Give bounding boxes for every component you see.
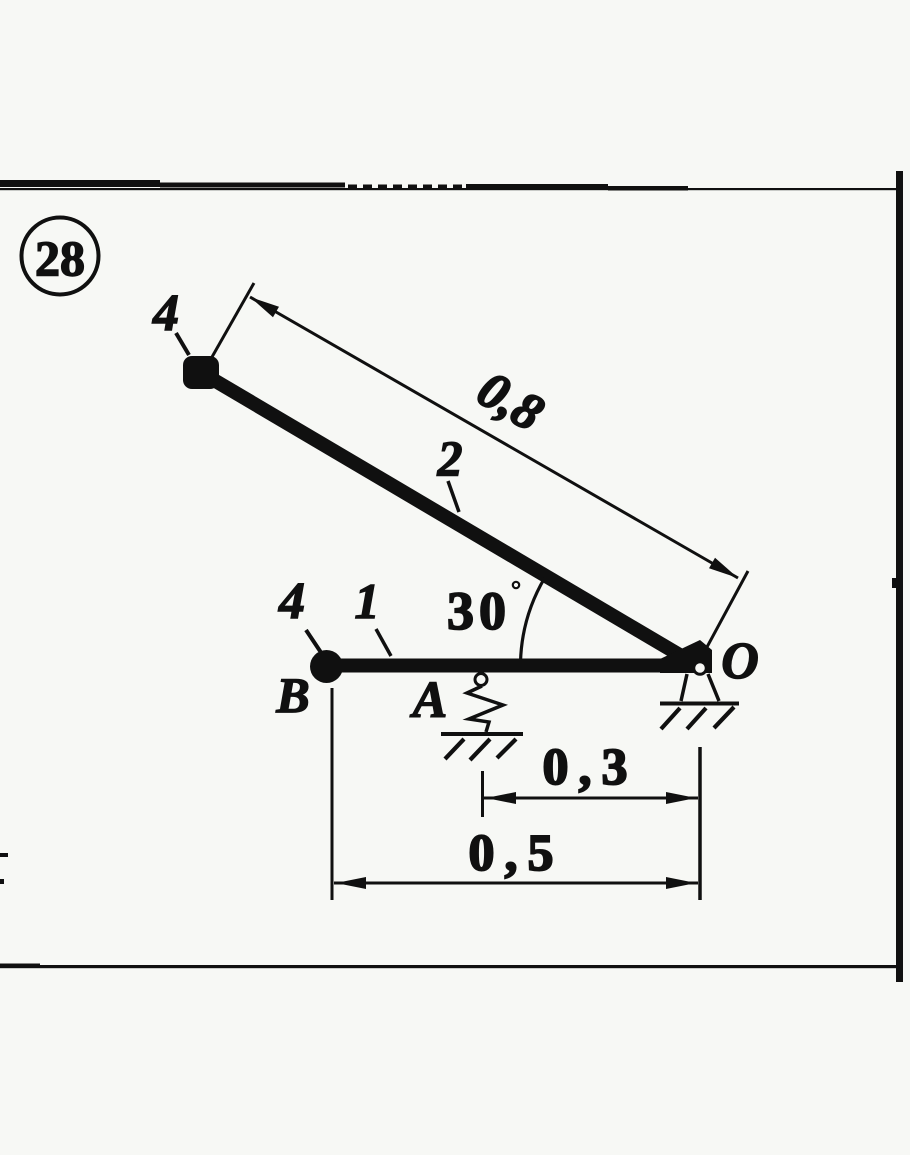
dimension 0,3 / 0,5 shared right tick [698,747,702,900]
top border line [0,180,899,191]
svg-text:A: A [410,672,448,729]
arrowhead left (0,3) [486,792,516,804]
dimension line 0,5 [334,882,698,885]
right border line [896,171,903,982]
hatching at O support [661,708,680,729]
problem number badge 28 [22,218,99,295]
spring zigzag at A [467,686,503,732]
leader line 4 left [306,630,322,654]
arrowhead left (0,5) [336,877,366,889]
leader line 2 [448,481,459,512]
end mass at B [310,650,343,683]
extension line at O (dimension 0,8) [700,571,748,660]
hatching at A support [445,739,464,759]
arrowhead right (0,3) [666,792,696,804]
svg-text:1: 1 [355,573,380,629]
svg-text:4: 4 [152,285,179,342]
arrowhead bottom (0,8) [709,558,741,583]
spring attachment ring at A [475,674,487,686]
dimension line 0,8 [250,297,738,578]
pin support legs at O [681,674,687,701]
svg-text:28: 28 [35,230,85,286]
leader line 1 [376,629,391,656]
extension line top end (dimension 0,8) [212,283,254,357]
angle arc 30 degrees [521,578,545,662]
bar 1 (horizontal rod B to O) [326,659,700,673]
svg-text:0,5: 0,5 [469,825,564,882]
svg-text:30: 30 [447,581,511,641]
pin circle at O [694,662,707,675]
svg-text:O: O [721,633,759,690]
ground line at A [441,732,523,736]
svg-text:B: B [275,667,309,723]
left margin marks [0,853,8,857]
svg-text:2: 2 [437,430,463,486]
dimension 0,5 left tick [331,688,334,900]
dimension 0,3 left tick [481,771,484,817]
junction fill at O [660,640,712,673]
ground line at O [660,702,739,706]
bar 2 (inclined rod O to top mass) [202,373,700,667]
svg-text:0,3: 0,3 [543,739,638,796]
end mass at top of bar 2 [183,356,219,389]
leader line 4 top [176,333,189,355]
bottom border line [0,965,899,968]
svg-text:4: 4 [278,573,305,630]
arrowhead right (0,5) [666,877,696,889]
dimension line 0,3 [484,797,698,800]
arrowhead top (0,8) [247,292,279,317]
degree mark of 30 [513,582,519,588]
